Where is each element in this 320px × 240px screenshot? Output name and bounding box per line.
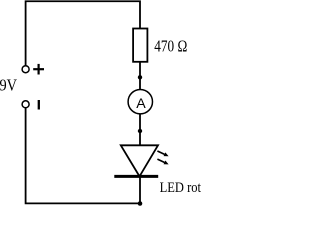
svg-text:9V: 9V xyxy=(0,75,18,94)
LED cathode bar xyxy=(114,175,158,178)
junction node between resistor and ammeter xyxy=(138,75,142,79)
battery plus sign xyxy=(33,64,44,75)
wire: resistor bottom to ammeter top xyxy=(139,62,141,90)
wire: ammeter bottom to LED top xyxy=(139,114,141,146)
junction node between ammeter and LED xyxy=(138,129,142,133)
battery positive terminal xyxy=(22,66,29,73)
battery negative terminal xyxy=(22,101,29,108)
LED D1 xyxy=(114,145,168,176)
node: bottom-right corner junction xyxy=(138,201,143,206)
ammeter A1 xyxy=(128,90,152,114)
LED anode triangle xyxy=(121,145,158,176)
svg-text:A: A xyxy=(136,96,146,112)
svg-text:470 Ω: 470 Ω xyxy=(154,37,187,56)
wire: battery + up, top rail, down to resistor xyxy=(26,1,140,65)
LED light arrow 1 xyxy=(157,151,168,156)
resistor R1 (box symbol) xyxy=(133,29,147,62)
svg-text:LED rot: LED rot xyxy=(160,180,202,196)
battery minus sign (vertical bar) xyxy=(38,100,40,110)
LED light arrow 2 xyxy=(157,159,168,164)
wire: LED bottom, bottom rail, up to battery - xyxy=(26,108,140,203)
